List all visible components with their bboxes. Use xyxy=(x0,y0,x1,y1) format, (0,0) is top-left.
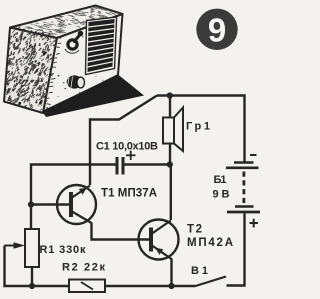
svg-text:МП42А: МП42А xyxy=(187,237,233,249)
transistor T2 xyxy=(139,220,179,260)
radio toggle switch xyxy=(65,31,83,54)
wire speaker bottom to node xyxy=(169,144,171,165)
wire bottom rail middle xyxy=(105,285,196,287)
badge 9 xyxy=(196,9,237,50)
wire battery to switch xyxy=(227,214,245,286)
radio speaker grille xyxy=(86,17,117,75)
svg-text:С1 10,0х10В: С1 10,0х10В xyxy=(96,141,158,153)
label C1 plus xyxy=(126,151,136,160)
radio illustration xyxy=(4,6,123,114)
capacitor C1 xyxy=(117,157,123,175)
svg-text:Б1: Б1 xyxy=(214,174,227,186)
radio top-face hatch xyxy=(25,7,121,35)
svg-text:R1 330к: R1 330к xyxy=(40,244,86,256)
svg-text:R2 22к: R2 22к xyxy=(62,262,105,274)
svg-text:Гр1: Гр1 xyxy=(186,121,210,133)
wire bottom rail left xyxy=(5,246,70,287)
svg-text:9: 9 xyxy=(208,12,226,49)
label battery plus xyxy=(250,219,259,228)
transistor T1 xyxy=(57,185,96,224)
wire T2 emitter to rail xyxy=(170,259,172,287)
wire C1 branch xyxy=(31,165,116,230)
potentiometer R1 xyxy=(5,229,40,267)
wire R1 bottom xyxy=(31,267,33,286)
wire top-left detour xyxy=(90,96,157,186)
resistor R2 xyxy=(69,280,105,293)
wire T2 collector xyxy=(170,165,172,221)
battery B1 xyxy=(226,163,260,213)
radio front-left edge hatch xyxy=(44,37,61,112)
wire speaker top xyxy=(169,96,171,118)
node T1 base / R1 xyxy=(28,201,34,207)
node R1 / bottom rail xyxy=(29,283,35,289)
speaker Gr1 xyxy=(163,108,183,152)
radio left-face texture xyxy=(6,27,58,111)
svg-text:9В: 9В xyxy=(213,189,230,201)
node C1 / speaker / T2 collector xyxy=(167,161,173,167)
radio knob xyxy=(67,75,85,88)
node top rail / speaker xyxy=(167,92,173,98)
radio front-face dots xyxy=(58,36,104,97)
radio shadow xyxy=(42,75,144,118)
svg-text:Т1 МП37А: Т1 МП37А xyxy=(101,188,157,200)
label battery minus xyxy=(250,154,257,156)
switch B1 xyxy=(196,277,227,287)
wire T1 base xyxy=(31,203,69,205)
wire top rail xyxy=(157,96,245,162)
node T2 emitter / bottom rail xyxy=(168,283,174,289)
wire C1 to node xyxy=(125,163,171,165)
wire T1 collector to T2 base xyxy=(92,223,150,240)
